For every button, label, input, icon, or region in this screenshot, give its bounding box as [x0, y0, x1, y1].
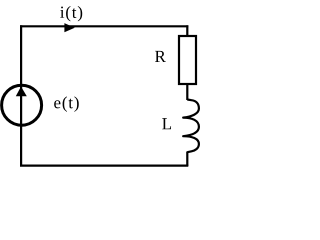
source arrow — [16, 87, 27, 97]
inductor L — [183, 100, 199, 153]
label e(t) — [54, 96, 79, 111]
source e(t) circle — [2, 85, 42, 125]
wire right middle — [186, 84, 188, 100]
wire right lower — [186, 152, 188, 167]
wire bottom — [20, 165, 188, 167]
wire left — [20, 25, 22, 166]
label L — [162, 118, 171, 129]
resistor R — [179, 36, 196, 84]
arrow i(t) — [64, 23, 74, 32]
label i(t) — [60, 6, 82, 21]
wire right upper — [186, 25, 188, 37]
label R — [155, 51, 166, 62]
wire top — [20, 25, 188, 27]
